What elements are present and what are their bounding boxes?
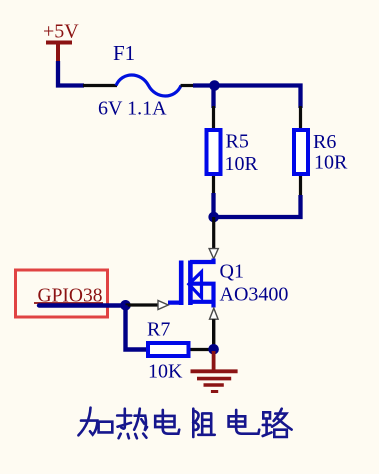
pin arrow drain — [209, 249, 218, 259]
svg-text:R7: R7 — [147, 319, 170, 341]
source pin of Q1 — [212, 319, 215, 346]
node B junction — [208, 212, 219, 223]
title char 电 — [155, 410, 179, 434]
svg-text:+5V: +5V — [43, 21, 79, 43]
node C junction — [120, 300, 131, 311]
title char 加 — [78, 408, 112, 436]
svg-text:R5: R5 — [226, 131, 249, 153]
wire R6 bottom to node B — [214, 195, 301, 217]
title char 电 — [229, 410, 260, 434]
svg-text:6V 1.1A: 6V 1.1A — [98, 98, 167, 120]
title char 热 — [117, 409, 147, 439]
title char 阻 — [193, 409, 214, 437]
ground — [191, 351, 238, 392]
power +5V — [43, 21, 79, 64]
title char 路 — [263, 409, 292, 437]
svg-text:Q1: Q1 — [220, 261, 244, 283]
port GPIO38 — [16, 270, 108, 317]
transistor Q1 — [168, 259, 214, 308]
svg-text:R6: R6 — [313, 131, 336, 153]
resistor R6 — [294, 106, 348, 196]
pin arrow source — [210, 308, 219, 319]
svg-text:F1: F1 — [113, 41, 135, 65]
wire fuse to node A — [193, 83, 214, 87]
gate pin wire — [126, 303, 159, 306]
node A junction — [209, 80, 220, 91]
wire GPIO38 to node C — [39, 303, 126, 307]
wire R5 bottom to node B — [211, 193, 215, 217]
svg-text:10K: 10K — [148, 361, 183, 383]
drain pin of Q1 — [212, 217, 215, 249]
fuse F1 — [83, 41, 194, 120]
svg-text:10R: 10R — [225, 153, 259, 175]
svg-text:10R: 10R — [314, 152, 348, 174]
node D junction — [208, 344, 219, 355]
wire node A to R6 top — [215, 86, 301, 109]
wire node A down to R5 — [211, 86, 215, 109]
resistor R5 — [207, 106, 259, 194]
resistor R7 — [147, 319, 210, 383]
pin arrow gate — [158, 301, 168, 310]
wire +5V to fuse — [58, 61, 84, 86]
wire node C down to R7 — [126, 305, 148, 349]
svg-text:AO3400: AO3400 — [220, 284, 289, 306]
